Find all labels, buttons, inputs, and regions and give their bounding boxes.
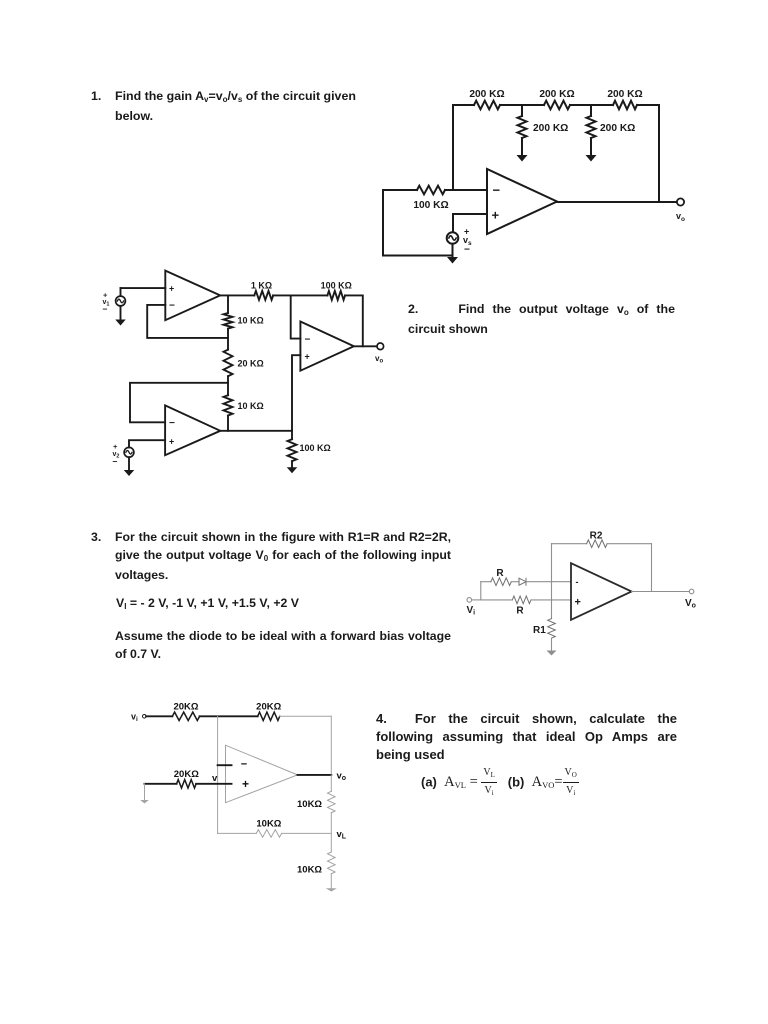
wire diode to op-amp inverting [526,581,571,583]
label 20K ohm input [173,702,198,713]
source vs [447,232,459,244]
wire right rail down to vo [330,716,332,775]
label 1 K ohm [251,281,272,291]
resistor 10 K ohm (lower) [224,395,233,415]
wire op2 feedback [130,383,228,423]
wire output [557,201,677,203]
svg-text:10KΩ: 10KΩ [256,818,281,829]
label 200 K ohm top-left [469,89,504,100]
label 100 K ohm top [321,281,352,291]
label 200 K ohm top-middle [539,89,574,100]
label plus [242,777,249,791]
svg-text:+: + [242,777,249,791]
resistor 200 K ohm (top-right) [613,101,637,110]
svg-text:20KΩ: 20KΩ [174,769,199,780]
wire shunt A bottom [521,138,523,155]
wire Vi to branch node [472,582,481,600]
label R bottom [516,606,524,617]
wire v1 to noninverting input [121,288,166,296]
source v2 [124,447,134,457]
wire R1 to ground [551,638,553,650]
question 2 text [408,301,675,337]
resistor R top [491,578,511,586]
wire R2 top left [552,543,587,545]
op-amp U3 (bottom) [165,405,220,455]
wire source to bottom rail [452,244,454,256]
wire op1 feedback [147,305,228,338]
wire shunt B top [590,105,592,116]
label Vo circuit3 [685,598,696,610]
label 20K ohm feedback [256,702,281,713]
wire chain mid2 [227,376,229,395]
resistor 100 K ohm input [417,186,445,195]
resistor 10K ohm upper load [328,791,336,813]
label 200 K ohm top-right [607,89,642,100]
label 10 K ohm lower [238,401,264,411]
resistor 200 K ohm (top-left) [474,101,500,110]
question 1 number [91,88,101,104]
wire v1 bottom [120,306,122,320]
label vo circuit4 [337,771,347,783]
resistor 10 K ohm (upper) [224,313,233,329]
label 10K ohm feedback [256,818,281,829]
wire left vertical [382,190,384,256]
wire R2 left vertical [551,544,553,619]
label vs [463,227,472,256]
resistor 100 K ohm feedback [327,291,345,300]
wire feedback right vertical [658,105,660,202]
wire bottom branch to op-amp noninverting [531,599,571,601]
question 3 diode note [115,628,451,663]
resistor 20K ohm input [172,712,199,720]
wire inverting tick [218,764,232,766]
wire bottom branch [481,599,513,601]
wire vi input [146,715,172,717]
label vi [131,712,138,724]
terminal Vo circuit3 [689,589,694,594]
wire node to op3 inverting [291,295,301,338]
label minus [241,759,247,771]
resistor 1 K ohm [254,291,273,300]
ground circuit4 left [140,800,149,804]
wire op1 output [220,294,254,296]
ground shunt A [517,155,528,162]
svg-text:vo: vo [337,771,347,783]
question 1 text [115,88,367,124]
svg-text:v: v [212,773,218,784]
resistor 20K ohm ground leg [177,780,197,788]
wire node to 100K load [291,431,293,439]
label vo circuit2 [375,354,383,365]
diode D1 [519,578,526,585]
wire R to diode [511,581,519,583]
label v1 [103,291,110,315]
resistor 10K ohm lower load [328,852,336,874]
question 3 voltages line [116,595,299,615]
wire to ground circuit4 [330,874,332,889]
label R1 [533,625,546,636]
wire R2 top right [607,544,651,592]
question 4 text [376,710,677,765]
label vL [337,829,347,841]
wire to 100K [291,294,328,296]
svg-text:10KΩ: 10KΩ [297,799,322,810]
wire load mid [330,813,332,852]
ground shunt B [586,155,597,162]
resistor 100 K ohm load [288,439,297,461]
label R2 [590,531,603,542]
wire 1K to node [273,294,291,296]
wire top feedback rail segment 1 [453,104,474,106]
wire op2 output [220,430,292,432]
wire noninverting input [453,214,487,232]
label 10K ohm lower load [297,865,322,876]
wire top rail segment 3 [570,104,613,106]
wire node v vertical [217,716,219,833]
label 20K ohm ground leg [174,769,199,780]
wire 20K to plus input [196,783,231,785]
wire chain mid1 [227,329,229,350]
label 10 K ohm upper [238,315,264,325]
wire vL feedback horizontal [218,832,332,834]
svg-text:vL: vL [337,829,347,841]
wire inverting input right [445,189,487,191]
label vo [676,211,685,223]
label 100 K ohm [413,200,448,211]
wire ground leg vertical [144,784,146,800]
wire output circuit3 [632,591,690,593]
resistor 20 K ohm [224,350,233,377]
label R top [496,568,504,579]
wire top rail segment 2 [500,104,544,106]
wire top rail segment 4 [637,104,659,106]
wire v2 to noninverting [129,440,165,447]
wire shunt A top [521,105,523,116]
question 4 formulas [421,766,579,800]
svg-text:−: − [241,759,247,771]
label 100 K ohm load [300,443,331,453]
svg-text:20KΩ: 20KΩ [256,702,281,713]
wire 20K feedback to right rail [280,715,332,717]
wire chain top [227,295,229,313]
ground below v2 [124,470,135,476]
resistor 200 K ohm shunt A [518,116,527,138]
terminal vi [143,715,147,719]
label 20 K ohm [238,358,264,368]
ground below 100K load [287,467,298,473]
op-amp U6 [226,745,298,803]
wire chain bottom [227,416,229,431]
op-amp U4 (output) [300,322,354,371]
resistor R1 [548,619,556,639]
wire v2 bottom [128,457,130,470]
resistor R2 [587,540,608,548]
resistor R bottom [512,596,531,604]
wire vo node down [330,775,332,791]
resistor 200 K ohm shunt B [587,116,596,138]
wire feedback left vertical [452,105,454,190]
terminal vo circuit2 [377,343,384,350]
wire noninverting input [145,783,177,785]
wire top branch a [481,581,491,583]
question 3 text [115,529,451,585]
svg-text:vi: vi [131,712,138,724]
wire op3 output [354,345,377,347]
wire 20K to node v [200,715,258,717]
ground below source [447,257,458,264]
wire 100K right down [345,295,363,346]
wire shunt B bottom [590,138,592,155]
resistor 10K ohm feedback [256,830,281,838]
svg-text:10KΩ: 10KΩ [297,865,322,876]
wire inverting input left [383,189,417,191]
label Vi [467,605,476,617]
wire op-amp output [298,774,332,776]
wire op3 noninverting down [292,355,300,431]
wire bottom rail [383,255,453,257]
resistor 20K ohm feedback [258,712,280,720]
svg-text:20KΩ: 20KΩ [173,702,198,713]
ground circuit4 bottom [326,888,337,891]
label 200 K ohm shunt B [600,123,635,134]
ground below R1 [547,651,557,656]
label 10K ohm upper load [297,799,322,810]
resistor 200 K ohm (top-middle) [544,101,570,110]
op-amp U5 [571,563,632,620]
label node v [212,773,218,784]
terminal Vi [467,598,472,603]
label v2 [113,442,120,467]
op-amp U2 (top) [165,271,220,321]
ground below v1 [115,320,126,326]
op-amp U1 [487,169,557,234]
terminal vo [677,198,684,205]
question 3 number [91,529,101,547]
source v1 [116,296,126,306]
wire 100K load bottom [291,461,293,467]
label 200 K ohm shunt A [533,123,568,134]
